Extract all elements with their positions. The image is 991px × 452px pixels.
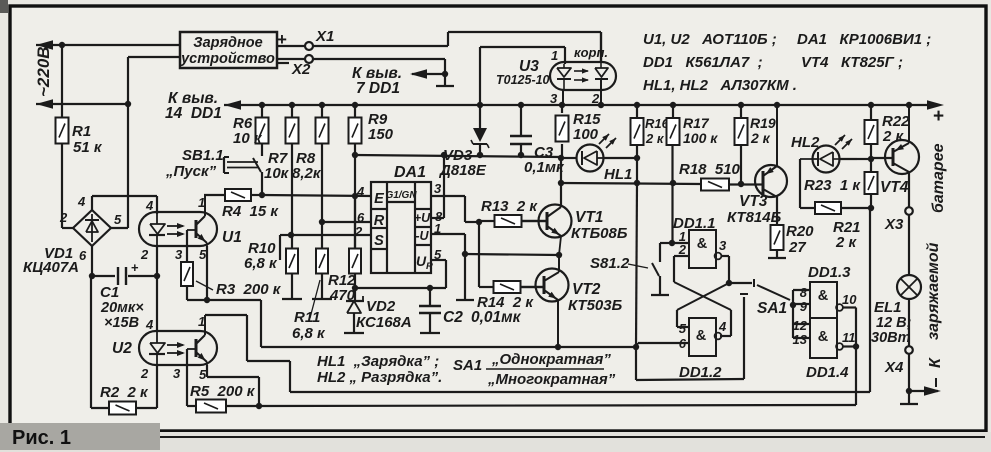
- svg-text:R20: R20: [786, 223, 814, 240]
- svg-text:3: 3: [550, 91, 558, 106]
- svg-text:5: 5: [114, 212, 122, 227]
- svg-text:10к: 10к: [264, 165, 290, 182]
- svg-text:5: 5: [679, 321, 687, 336]
- svg-text:2: 2: [140, 247, 149, 262]
- svg-text:C1: C1: [100, 284, 119, 301]
- svg-text:VT4 КТ825Г ;: VT4 КТ825Г ;: [801, 54, 903, 71]
- svg-text:R: R: [426, 261, 433, 272]
- svg-text:5: 5: [199, 367, 207, 382]
- svg-text:3: 3: [434, 181, 442, 196]
- svg-text:R18 510: R18 510: [679, 161, 741, 178]
- svg-text:R: R: [374, 213, 385, 229]
- svg-text:6,8 к: 6,8 к: [292, 325, 326, 342]
- svg-text:&: &: [696, 328, 707, 344]
- svg-text:EL1: EL1: [874, 299, 902, 316]
- svg-text:Т0125-10: Т0125-10: [496, 73, 550, 87]
- svg-text:КТБ08Б: КТБ08Б: [571, 225, 628, 242]
- svg-text:батарее: батарее: [930, 143, 947, 213]
- svg-text:8: 8: [800, 285, 808, 300]
- svg-text:3: 3: [173, 366, 181, 381]
- svg-text:X4: X4: [884, 359, 904, 376]
- svg-text:„Однократная”: „Однократная”: [491, 351, 611, 368]
- svg-text:HL1, HL2 АЛ307КМ .: HL1, HL2 АЛ307КМ .: [643, 77, 797, 94]
- svg-text:0,01мк: 0,01мк: [471, 309, 522, 326]
- svg-text:КЦ407А: КЦ407А: [23, 259, 79, 276]
- svg-text:устройство: устройство: [180, 51, 275, 67]
- svg-text:R19: R19: [750, 115, 776, 131]
- svg-text:Рис. 1: Рис. 1: [12, 427, 71, 449]
- svg-text:X3: X3: [884, 216, 904, 233]
- svg-text:2: 2: [678, 242, 687, 257]
- svg-text:КС168А: КС168А: [356, 314, 412, 331]
- svg-text:R13 2 к: R13 2 к: [481, 198, 538, 215]
- svg-text:U1, U2 АОТ110Б ;: U1, U2 АОТ110Б ;: [643, 31, 777, 48]
- svg-text:14 DD1: 14 DD1: [165, 105, 222, 122]
- svg-text:×15В: ×15В: [104, 315, 139, 331]
- svg-text:HL2 „ Разрядка”.: HL2 „ Разрядка”.: [317, 369, 442, 386]
- svg-text:КТ503Б: КТ503Б: [568, 297, 623, 314]
- svg-text:1: 1: [198, 314, 205, 329]
- svg-text:R2 2 к: R2 2 к: [100, 384, 149, 401]
- svg-text:30Вт: 30Вт: [871, 330, 911, 346]
- svg-text:2: 2: [59, 210, 68, 225]
- svg-text:11: 11: [842, 330, 856, 345]
- svg-text:Д818Е: Д818Е: [438, 162, 487, 179]
- svg-text:DD1.3: DD1.3: [808, 264, 851, 281]
- svg-text:100 к: 100 к: [683, 130, 718, 146]
- svg-text:10 к: 10 к: [233, 130, 263, 147]
- svg-text:2 к: 2 к: [835, 234, 858, 251]
- svg-text:R5 200 к: R5 200 к: [190, 383, 256, 400]
- svg-text:2 к: 2 к: [645, 131, 665, 146]
- svg-text:3: 3: [175, 247, 183, 262]
- svg-text:X1: X1: [315, 28, 334, 45]
- svg-text:R14 2 к: R14 2 к: [477, 294, 534, 311]
- svg-text:заряжаемой: заряжаемой: [925, 242, 942, 340]
- svg-text:150: 150: [368, 126, 394, 143]
- svg-text:VD2: VD2: [366, 298, 396, 315]
- svg-text:HL1: HL1: [604, 166, 632, 183]
- svg-text:2: 2: [140, 366, 149, 381]
- svg-text:2 к: 2 к: [750, 130, 771, 146]
- svg-text:8,2к: 8,2к: [292, 165, 322, 182]
- svg-text:6,8 к: 6,8 к: [244, 255, 278, 272]
- svg-text:„Многократная”: „Многократная”: [487, 371, 616, 388]
- svg-text:R11: R11: [294, 309, 320, 326]
- svg-text:51 к: 51 к: [73, 139, 103, 156]
- svg-text:C2: C2: [443, 309, 463, 326]
- svg-text:4: 4: [356, 184, 365, 199]
- svg-text:S: S: [374, 233, 384, 249]
- svg-text:VT2: VT2: [572, 281, 601, 298]
- svg-text:&: &: [818, 329, 829, 345]
- svg-text:20мк×: 20мк×: [100, 300, 144, 316]
- svg-text:7 DD1: 7 DD1: [356, 80, 400, 97]
- svg-text:6: 6: [79, 248, 87, 263]
- svg-text:X2: X2: [291, 61, 311, 78]
- svg-text:10: 10: [842, 292, 857, 307]
- svg-text:DD1 К561ЛА7 ;: DD1 К561ЛА7 ;: [643, 54, 763, 71]
- svg-text:R17: R17: [683, 115, 710, 131]
- svg-text:КТ814Б: КТ814Б: [727, 209, 782, 226]
- svg-text:R1: R1: [72, 123, 91, 140]
- svg-text:13: 13: [793, 332, 808, 347]
- svg-text:DD1.4: DD1.4: [806, 364, 849, 381]
- svg-text:G1/GN: G1/GN: [385, 190, 417, 201]
- svg-text:12: 12: [793, 318, 808, 333]
- svg-text:HL1 „Зарядка” ;: HL1 „Зарядка” ;: [317, 353, 439, 370]
- svg-text:VT4: VT4: [880, 179, 909, 196]
- svg-text:DA1 КР1006ВИ1 ;: DA1 КР1006ВИ1 ;: [797, 31, 931, 48]
- svg-text:+: +: [131, 260, 139, 275]
- svg-text:&: &: [697, 236, 708, 252]
- svg-text:4: 4: [145, 198, 154, 213]
- svg-text:VT3: VT3: [739, 193, 768, 210]
- svg-text:5: 5: [199, 247, 207, 262]
- svg-text:4: 4: [77, 194, 86, 209]
- svg-text:100: 100: [573, 126, 599, 143]
- svg-text:R23 1 к: R23 1 к: [804, 177, 861, 194]
- svg-text:HL2: HL2: [791, 134, 820, 151]
- svg-text:&: &: [818, 288, 829, 304]
- svg-text:9: 9: [800, 299, 808, 314]
- svg-text:корп.: корп.: [574, 45, 608, 60]
- svg-text:27: 27: [788, 239, 806, 256]
- svg-text:2: 2: [591, 91, 600, 106]
- svg-text:VT1: VT1: [575, 209, 603, 226]
- svg-text:+: +: [933, 106, 944, 127]
- svg-text:0,1мк: 0,1мк: [524, 159, 565, 176]
- svg-text:S81.2: S81.2: [590, 255, 630, 272]
- svg-text:+: +: [277, 30, 287, 49]
- svg-text:3: 3: [719, 238, 727, 253]
- svg-text:E: E: [374, 191, 385, 207]
- svg-text:U1: U1: [222, 229, 242, 246]
- svg-text:4: 4: [718, 319, 727, 334]
- svg-text:SA1: SA1: [757, 300, 787, 317]
- svg-text:„Пуск”: „Пуск”: [165, 163, 217, 180]
- svg-text:К: К: [927, 357, 944, 368]
- svg-text:1: 1: [198, 195, 205, 210]
- svg-text:-U: -U: [415, 229, 429, 243]
- svg-text:SA1: SA1: [453, 357, 482, 374]
- svg-text:+U: +U: [414, 211, 431, 225]
- svg-text:SB1.1: SB1.1: [182, 147, 224, 164]
- svg-text:~220В: ~220В: [34, 46, 53, 97]
- svg-text:4: 4: [145, 317, 154, 332]
- svg-text:1: 1: [551, 48, 558, 63]
- svg-text:DA1: DA1: [394, 164, 426, 181]
- svg-text:Зарядное: Зарядное: [193, 35, 262, 51]
- svg-text:R3 200 к: R3 200 к: [216, 281, 282, 298]
- svg-text:U2: U2: [112, 340, 132, 357]
- svg-text:R4 15 к: R4 15 к: [222, 203, 279, 220]
- svg-text:12 В;: 12 В;: [876, 315, 912, 331]
